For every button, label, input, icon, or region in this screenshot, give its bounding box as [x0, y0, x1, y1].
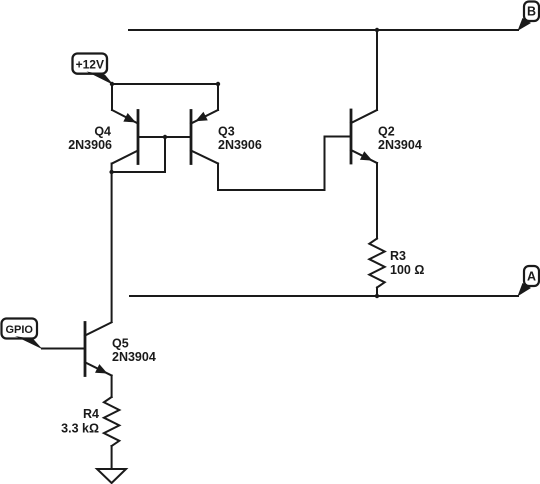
wire Q4 collector down to Q5 collector [111, 164, 113, 323]
transistor Q4 PNP 2N3906 [112, 110, 138, 164]
junction dot rail A [375, 294, 379, 298]
wire R4 to ground [111, 446, 113, 469]
node B flag box [524, 2, 539, 22]
resistor R4 [104, 397, 119, 446]
svg-text:2N3906: 2N3906 [68, 138, 112, 152]
junction dot base tie [163, 135, 167, 139]
svg-text:+12V: +12V [76, 58, 104, 72]
node +12V flag box [73, 54, 108, 74]
transistor Q5 NPN 2N3904 [85, 322, 112, 375]
svg-text:Q5: Q5 [112, 337, 129, 351]
wire Q5 emitter to R4 [111, 376, 113, 398]
wire GPIO to Q5 base [42, 348, 85, 350]
wire +12V rail to emitters of Q4 and Q3 [112, 83, 218, 85]
wire top rail B [129, 29, 518, 31]
node GPIO flag wedge [15, 336, 43, 349]
svg-text:A: A [527, 269, 536, 283]
svg-text:R3: R3 [390, 249, 406, 263]
svg-text:Q2: Q2 [378, 125, 395, 139]
junction dot +12V corner right [216, 82, 220, 86]
svg-text:Q3: Q3 [218, 125, 235, 139]
junction dot +12V corner left [110, 82, 114, 86]
svg-text:3.3 kΩ: 3.3 kΩ [61, 422, 99, 436]
node GPIO flag box [2, 319, 38, 339]
wire Q4 Q3 base tie [138, 136, 191, 138]
svg-text:2N3904: 2N3904 [378, 138, 422, 152]
wire rail A [130, 295, 518, 297]
ground [97, 469, 126, 483]
node +12V flag wedge [87, 72, 114, 86]
svg-text:Q4: Q4 [94, 125, 111, 139]
wire Q3 collector vertical [217, 164, 219, 191]
svg-text:100 Ω: 100 Ω [390, 263, 424, 277]
node A flag box [524, 266, 539, 286]
junction dot top rail [375, 28, 379, 32]
wire base tie down [164, 137, 166, 172]
svg-text:R4: R4 [83, 407, 99, 421]
wire into Q2 base [325, 136, 352, 138]
node B flag wedge [518, 18, 532, 31]
wire Q3 emitter vertical [217, 84, 219, 110]
svg-text:B: B [527, 4, 536, 18]
svg-text:GPIO: GPIO [5, 324, 33, 336]
wire Q4 emitter vertical [111, 84, 113, 110]
transistor Q3 PNP 2N3906 [191, 110, 218, 164]
resistor R3 [369, 239, 384, 288]
svg-text:2N3904: 2N3904 [112, 350, 156, 364]
wire Q3 collector to Q2 base horizontal [218, 189, 325, 191]
wire base tie across to Q4 collector [112, 171, 165, 173]
svg-text:2N3906: 2N3906 [218, 138, 262, 152]
wire up to Q2 base level [324, 137, 326, 191]
node A flag wedge [518, 283, 532, 296]
junction dot collector tie [109, 170, 113, 174]
transistor Q2 NPN 2N3904 [351, 110, 377, 163]
wire Q2 emitter to R3 [376, 163, 378, 239]
wire Q2 collector to top rail [376, 30, 378, 110]
wire R3 to rail A [376, 288, 378, 297]
